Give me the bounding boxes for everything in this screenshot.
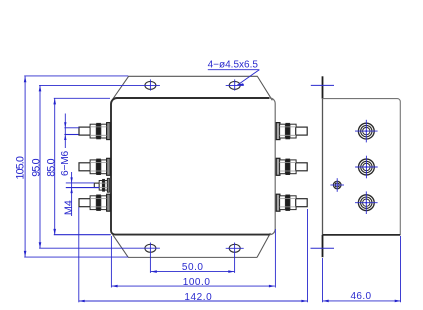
svg-text:95.0: 95.0 [30,158,42,176]
svg-text:85.0: 85.0 [46,158,58,176]
svg-text:50.0: 50.0 [182,262,204,273]
svg-text:142.0: 142.0 [184,292,212,303]
svg-text:105.0: 105.0 [15,156,27,179]
svg-text:46.0: 46.0 [350,291,371,302]
svg-text:100.0: 100.0 [183,277,211,288]
svg-text:M4: M4 [63,200,75,215]
svg-text:6−M6: 6−M6 [60,150,71,176]
svg-text:4−ø4.5x6.5: 4−ø4.5x6.5 [208,60,259,71]
